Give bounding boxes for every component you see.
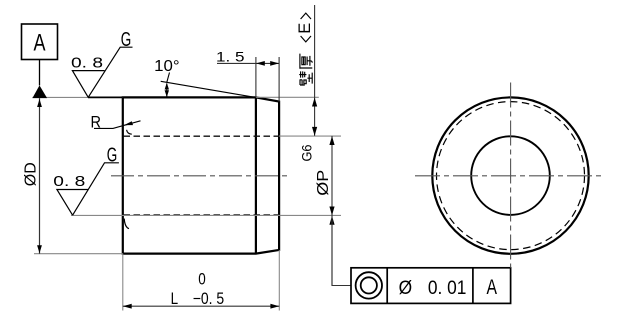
svg-text:10°: 10°	[154, 58, 180, 75]
svg-text:G6: G6	[300, 145, 315, 162]
dimension 1.5 line	[217, 62, 279, 64]
svg-text:G: G	[107, 145, 118, 167]
angle bracket close	[301, 13, 311, 19]
svg-text:0. 01: 0. 01	[428, 278, 467, 299]
centerline vertical	[510, 83, 512, 268]
outer circle	[432, 97, 588, 253]
extension line L right	[278, 250, 280, 311]
extension line bore top right	[279, 135, 341, 137]
part outline	[123, 97, 279, 253]
svg-text:0. 8: 0. 8	[71, 55, 103, 72]
extension line top-right	[256, 96, 319, 98]
arrow 1.5 left	[256, 61, 265, 66]
svg-text:ØD: ØD	[22, 162, 39, 186]
label wall thickness (E) rotated	[296, 13, 314, 85]
svg-text:A: A	[34, 30, 46, 57]
datum leader	[39, 60, 41, 86]
svg-text:−0. 5: −0. 5	[193, 290, 225, 308]
extension line bore bottom	[71, 214, 341, 216]
concentricity symbol	[356, 272, 382, 298]
dashed circle	[437, 102, 585, 250]
centerline	[111, 175, 289, 177]
taper angle arrows	[166, 84, 168, 97]
taper angle leader	[167, 73, 170, 83]
arrow wall bottom	[312, 127, 317, 136]
dimension L line	[123, 305, 279, 307]
arrow L left	[123, 304, 132, 309]
svg-text:A: A	[487, 276, 498, 299]
bore hidden line bottom	[124, 214, 280, 216]
wall-thickness dimension line	[314, 5, 316, 136]
datum triangle	[32, 85, 47, 98]
arrow wall top	[312, 98, 317, 107]
fillet arc top	[127, 130, 132, 134]
dimension OD line	[39, 98, 41, 254]
svg-text:L: L	[171, 290, 179, 308]
bore hidden line top	[124, 135, 280, 137]
svg-text:0. 8: 0. 8	[53, 173, 85, 190]
leader R	[94, 121, 141, 129]
extension line L left	[122, 254, 124, 311]
arrow L right	[270, 304, 279, 309]
extension line 1.5 left	[255, 57, 257, 97]
svg-text:0: 0	[198, 270, 206, 288]
arrow bore top	[329, 136, 334, 145]
datum A box	[22, 24, 58, 60]
inner circle	[471, 136, 550, 215]
extension line bottom-left	[34, 253, 123, 255]
bore dimension line	[331, 136, 333, 286]
glyph bi	[299, 71, 312, 85]
svg-text:G: G	[121, 29, 132, 51]
angle bracket open	[301, 36, 311, 42]
arrow R	[124, 121, 133, 125]
taper angle extension line	[161, 81, 255, 97]
extension line top-left	[32, 96, 122, 98]
glyph hou	[300, 54, 312, 69]
surface finish symbol 2	[57, 163, 119, 215]
arrow OD bottom	[37, 245, 42, 253]
extension line 1.5 right	[278, 57, 280, 102]
svg-text:Ø: Ø	[399, 278, 413, 299]
arrow bore bottom	[329, 207, 334, 216]
svg-text:ØP: ØP	[315, 170, 332, 196]
svg-text:1. 5: 1. 5	[216, 49, 245, 64]
leader arrow to extension	[329, 216, 334, 225]
svg-text:R: R	[91, 113, 102, 132]
surface finish symbol 1	[72, 47, 132, 97]
arrow 1.5 right	[270, 61, 279, 66]
leader from frame	[332, 216, 351, 286]
svg-text:E: E	[296, 23, 314, 34]
arrow OD top	[37, 99, 42, 107]
centerline horizontal	[415, 175, 605, 177]
frame box	[351, 268, 511, 304]
fillet arc bottom	[124, 219, 129, 229]
